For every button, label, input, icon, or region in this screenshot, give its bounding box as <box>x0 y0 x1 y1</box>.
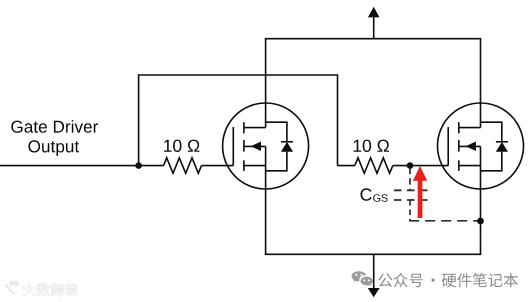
terminal arrow down <box>368 288 380 297</box>
transistor Q2 (right MOSFET) <box>438 103 524 189</box>
wire: down arrow stem <box>373 254 375 289</box>
faint corner logo mark <box>6 282 18 294</box>
node: Q2 gate junction dot <box>407 162 414 169</box>
wire: top rail <box>265 38 482 40</box>
wire: R2 to Q2 gate <box>393 165 448 167</box>
capacitor CGS top plate <box>394 189 428 191</box>
terminal arrow up <box>368 7 380 18</box>
node: Q2 source junction dot <box>477 218 484 225</box>
wire: Q2 drain to top rail <box>480 39 482 128</box>
wire: R1 to Q1 gate <box>202 165 234 167</box>
wire: up arrow stem <box>373 16 375 39</box>
wire: branch corner to R2 <box>338 165 355 167</box>
faint corner logo text 大数跨境 <box>23 283 78 296</box>
capacitor CGS bottom plate <box>394 199 428 201</box>
resistor R2 zigzag <box>355 158 393 174</box>
wire: Q2 source to bottom rail <box>480 146 482 254</box>
node: gate drive junction dot <box>135 162 142 169</box>
watermark text 公众号·硬件笔记本 <box>378 273 518 287</box>
dashed wire: CGS return to Q2 source <box>409 220 481 222</box>
label: Gate Driver Output <box>11 120 98 133</box>
resistor R1 zigzag <box>164 158 202 174</box>
red current arrow <box>413 166 427 218</box>
capacitor CGS dashed lead to source run <box>409 200 411 221</box>
watermark wechat icon <box>352 271 373 286</box>
resistor R2 value label 10 Ω <box>354 140 389 152</box>
wire: Q1 source to bottom rail <box>265 146 267 254</box>
wire: branch up and over to second resistor <box>139 75 338 166</box>
capacitor CGS dashed lead from gate node <box>409 168 411 191</box>
resistor R1 value label 10 Ω <box>164 140 199 152</box>
wire: gate driver output lead <box>0 165 164 167</box>
wire: bottom rail <box>265 253 482 255</box>
capacitor label CGS <box>361 188 372 201</box>
transistor Q1 (left MOSFET) <box>223 103 309 189</box>
wire: Q1 drain to top rail <box>265 39 267 128</box>
